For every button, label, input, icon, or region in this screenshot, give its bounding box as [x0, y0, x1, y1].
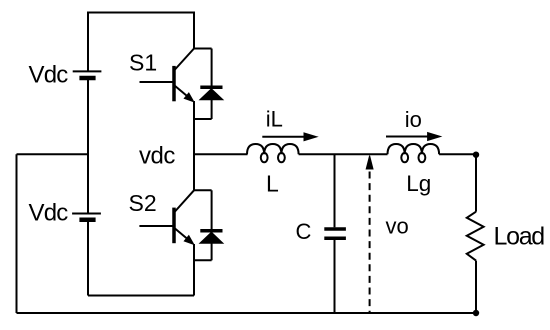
wire L to Lg — [299, 153, 388, 155]
wire left rail between batteries — [87, 80, 89, 214]
node dot bottom right — [473, 310, 479, 316]
resistor Load zigzag — [467, 212, 484, 261]
svg-text:vo: vo — [386, 214, 409, 239]
inductor Lg loop 2 — [419, 153, 426, 162]
transistor S2 emitter arrow — [184, 236, 194, 245]
svg-text:Lg: Lg — [406, 171, 431, 196]
transistor S2 base bar — [172, 208, 176, 244]
wire load to bottom — [475, 261, 477, 313]
capacitor C plate bottom — [324, 236, 346, 240]
transistor S2 collector diagonal — [175, 190, 195, 212]
inductor Lg coil — [388, 144, 440, 154]
wire below lower battery — [87, 222, 89, 296]
diode D1 cathode bar — [200, 86, 222, 90]
wire top rail — [88, 13, 194, 72]
transistor S1 collector diagonal — [175, 49, 195, 71]
svg-text:Load: Load — [494, 222, 545, 250]
arrow io head — [428, 133, 441, 141]
diode D1 upper lead — [211, 49, 213, 87]
diode D2 cathode bar — [200, 229, 222, 233]
capacitor C bottom lead — [334, 240, 336, 313]
wire neutral tap — [17, 153, 89, 155]
wire node to load — [475, 155, 477, 212]
diode D2 upper lead — [211, 190, 213, 229]
svg-text:Vdc: Vdc — [29, 200, 69, 227]
arrow iL line — [262, 136, 305, 138]
transistor S1 base bar — [172, 66, 176, 101]
transistor S2 emitter diagonal — [175, 228, 191, 241]
wire left outer vertical — [16, 154, 18, 313]
inductor Lg loop 1 — [401, 153, 408, 162]
inductor L loop 2 — [278, 153, 285, 162]
diode D1 triangle — [200, 89, 223, 100]
svg-text:iL: iL — [266, 107, 283, 132]
transistor S2 base lead — [139, 225, 172, 227]
wire S1 loop bottom — [194, 118, 212, 120]
svg-text:S1: S1 — [129, 50, 157, 76]
svg-text:L: L — [266, 171, 279, 197]
wire midpoint node to L — [194, 153, 248, 155]
transistor Q S2: diode loop top — [194, 189, 212, 191]
node dot top right — [473, 152, 479, 158]
svg-text:C: C — [296, 219, 312, 244]
battery Vdc (lower) long plate — [72, 213, 101, 215]
svg-text:vdc: vdc — [139, 143, 175, 170]
diode D2 lower lead — [211, 243, 213, 260]
transistor S1 emitter diagonal — [175, 86, 191, 99]
arrow vo head — [366, 156, 373, 169]
diode D1 lower lead — [211, 100, 213, 119]
wire inner loop bottom — [88, 295, 194, 297]
inductor L coil — [247, 144, 299, 154]
battery Vdc (lower) short plate — [79, 217, 95, 222]
dashed line vo — [369, 172, 371, 314]
battery Vdc (upper) long plate — [73, 70, 102, 72]
wire mid rail S1 emitter to S2 collector — [193, 101, 195, 190]
arrow iL head — [304, 133, 317, 141]
transistor S1 emitter arrow — [184, 93, 194, 102]
battery Vdc (upper) short plate — [79, 76, 95, 81]
wire S2 loop bottom — [194, 259, 212, 261]
arrow io line — [386, 136, 429, 138]
svg-text:Vdc: Vdc — [29, 62, 69, 89]
inductor L loop 1 — [261, 153, 268, 162]
transistor S1 base lead — [140, 81, 173, 83]
transistor Q S1: diode loop top — [194, 48, 212, 50]
capacitor C plate top — [324, 227, 346, 231]
diode D2 triangle — [200, 232, 223, 243]
wire bottom rail — [17, 312, 477, 314]
wire Lg to node — [439, 153, 476, 155]
capacitor C top lead — [334, 154, 336, 227]
wire S2 emitter down — [193, 244, 195, 296]
svg-text:S2: S2 — [129, 190, 157, 216]
svg-text:io: io — [405, 107, 422, 132]
